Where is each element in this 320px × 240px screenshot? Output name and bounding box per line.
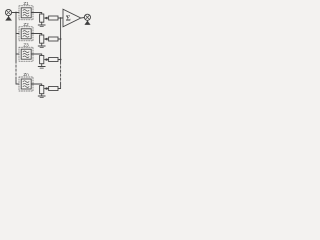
op-amp summing amplifier U1 (63, 9, 81, 27)
node bus junction 2 (60, 38, 62, 40)
wire summing bus dashed continuation (60, 62, 62, 84)
wire bus to amp input (61, 17, 63, 19)
svg-text:Z1: Z1 (23, 1, 29, 6)
wire left bus dashed continuation (15, 61, 17, 80)
resistor R1 (49, 16, 58, 20)
wiper arrow P2 (44, 38, 47, 40)
ground under P1 (38, 25, 45, 27)
wiper arrow P3 (44, 58, 47, 60)
pot P1 (40, 13, 44, 25)
resistor R3 (49, 58, 58, 62)
wire R3 to bus (58, 59, 61, 61)
resistor Rn (49, 87, 58, 91)
wire summing bus vertical (solid part) (60, 18, 62, 62)
wire input to bus and Z1 (12, 12, 19, 14)
wire branch to Z3 (16, 53, 19, 55)
input jack J1 (5, 9, 11, 20)
pot P2 (40, 34, 44, 46)
wire Z1 output to pot P1 (31, 12, 42, 14)
node bus junction 1 (60, 17, 62, 19)
wire Z3 output to pot P3 (31, 53, 42, 55)
filter block Zn (19, 72, 33, 91)
ground under Pn (38, 96, 45, 98)
wire Rn to bus (58, 88, 61, 90)
wire summing bus bottom (60, 84, 62, 89)
wire left bus to Zn (16, 80, 19, 84)
wire amp output (81, 17, 85, 20)
ground under P3 (38, 67, 45, 69)
resistor R2 (49, 37, 58, 41)
node bus junction 3 (60, 59, 62, 61)
wire left bus vertical (solid part) (15, 13, 17, 62)
wire R2 to bus (58, 38, 61, 40)
svg-text:Zn: Zn (23, 72, 29, 77)
pot P3 (40, 54, 44, 66)
svg-text:Z3: Z3 (23, 43, 29, 48)
output jack J2 (84, 14, 90, 24)
pot Pn (40, 84, 44, 96)
svg-text:Z2: Z2 (23, 22, 29, 27)
wire Zn output to pot Pn (31, 83, 42, 85)
wire R1 to bus (58, 17, 61, 19)
filter block Z2 (19, 22, 33, 41)
ground under P2 (38, 46, 45, 48)
node input bus junction (15, 12, 17, 14)
svg-text:Σ: Σ (66, 14, 71, 23)
wire branch to Z2 (16, 33, 19, 35)
wiper arrow Pn (44, 87, 47, 89)
filter block Z3 (19, 43, 33, 62)
filter block Z1 (19, 1, 33, 20)
wiper arrow P1 (44, 17, 47, 19)
wire Z2 output to pot P2 (31, 33, 42, 35)
